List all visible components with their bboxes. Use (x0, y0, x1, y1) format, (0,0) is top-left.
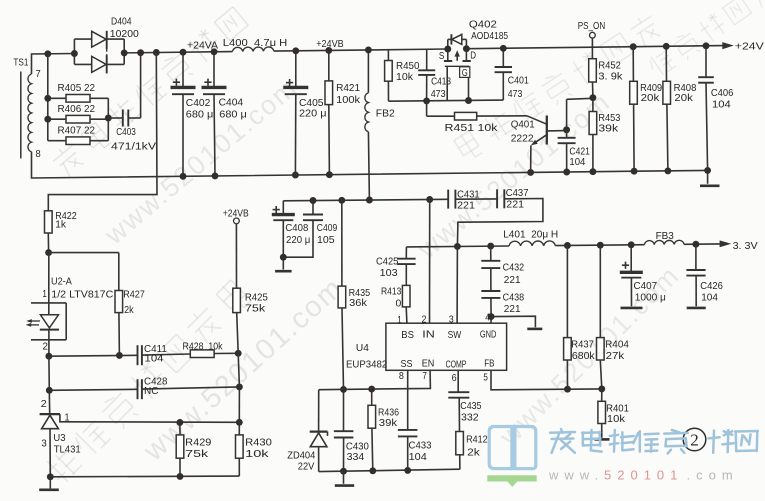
wire: divider column (238, 353, 239, 387)
svg-text:C408: C408 (285, 222, 308, 234)
svg-text:1k: 1k (55, 219, 66, 231)
junction dots row2 (46, 387, 53, 394)
svg-text:3. 9k: 3. 9k (598, 70, 623, 82)
svg-text:C438: C438 (503, 292, 525, 304)
svg-text:R430: R430 (245, 436, 272, 448)
ground (C407) (621, 307, 643, 310)
optocoupler U2-A LED (48, 253, 50, 315)
svg-text:471/1kV: 471/1kV (111, 140, 156, 152)
svg-text:104: 104 (569, 156, 585, 168)
svg-text:U2-A: U2-A (51, 276, 72, 288)
wire: opto cathode row (49, 354, 138, 357)
svg-text:2222: 2222 (511, 133, 534, 145)
ground (TL431 anode) (49, 477, 51, 489)
svg-text:221: 221 (506, 198, 524, 210)
svg-text:R407 22: R407 22 (58, 125, 96, 137)
capacitor C401 (502, 48, 504, 67)
resistor R412 (456, 432, 464, 455)
svg-text:3: 3 (449, 313, 454, 325)
wire: opto to TL431 segment (48, 356, 50, 390)
svg-text:20k: 20k (674, 92, 693, 104)
ferrite bead FB2 (367, 50, 369, 93)
wire: SW node line (406, 245, 509, 248)
resistor R427 (115, 291, 123, 313)
svg-text:473: 473 (508, 88, 523, 100)
wire: feedback bottom line (50, 475, 239, 478)
wire: EN bottom line (319, 469, 460, 471)
svg-text:104: 104 (145, 353, 164, 365)
svg-text:8: 8 (36, 148, 41, 160)
svg-text:R405 22: R405 22 (58, 82, 96, 94)
capacitor C407 (electrolytic) (630, 245, 632, 272)
svg-text:C404: C404 (219, 96, 244, 108)
svg-text:104: 104 (701, 292, 718, 304)
wire: +24V top rail (TS1 pin7 to D404 anode side) (32, 54, 75, 75)
svg-text:R451 10k: R451 10k (445, 122, 499, 134)
wire: GND pin to ground (490, 317, 492, 324)
svg-text:22V: 22V (298, 461, 315, 473)
transformer TS1 secondary winding (28, 74, 32, 152)
label +24V with arrow (722, 42, 734, 49)
svg-text:D404: D404 (111, 16, 132, 28)
wire: TL431 ref line (65, 421, 239, 424)
wire: 3.3V output line (555, 244, 644, 247)
watermark texts (decorative) (50, 5, 250, 179)
ground (C426) (687, 307, 706, 310)
svg-text:104: 104 (409, 451, 427, 463)
resistor R421 (328, 50, 330, 81)
resistor R406 (48, 118, 66, 120)
capacitor C421 (566, 130, 568, 138)
svg-text:.com: .com (687, 468, 739, 483)
ferrite bead FB3 (644, 240, 684, 244)
zener ZD404 (318, 390, 320, 432)
inductor L400 (232, 47, 273, 52)
svg-text:1: 1 (42, 288, 47, 300)
diode D404 lower (74, 63, 91, 65)
wire: divider to Q401 base (567, 98, 593, 99)
wire: D404 right vertical (123, 39, 125, 64)
page number 2 circled (683, 428, 706, 451)
svg-text:4: 4 (485, 311, 490, 323)
svg-text:2: 2 (41, 398, 47, 410)
svg-text:39k: 39k (379, 417, 398, 429)
mosfet Q402 body diode (447, 39, 449, 49)
shunt regulator U3 TL431 (40, 413, 60, 415)
svg-text:SS: SS (401, 358, 413, 370)
svg-text:C435: C435 (460, 400, 481, 412)
svg-text:1/2 LTV817C: 1/2 LTV817C (51, 289, 113, 301)
transistor Q401 (527, 116, 547, 124)
resistor R453 (592, 98, 594, 112)
svg-text:8: 8 (399, 370, 404, 382)
capacitor C408 (electrolytic) (282, 201, 284, 214)
resistor R436 (371, 389, 373, 405)
ic U4 EUP3482 box (386, 323, 507, 370)
svg-text:6: 6 (452, 372, 457, 384)
resistor R425 (233, 288, 241, 312)
svg-text:+24V: +24V (735, 40, 764, 52)
svg-text:221: 221 (457, 200, 475, 212)
svg-text:C433: C433 (409, 440, 432, 452)
svg-text:R413: R413 (381, 286, 401, 298)
svg-text:680 μ: 680 μ (219, 108, 247, 120)
junction dot C421 bus (563, 169, 570, 176)
svg-text:COMP: COMP (446, 358, 467, 370)
wire: R422 to R427 (49, 252, 119, 254)
wire: EN node line (319, 370, 431, 389)
diode D404 upper (74, 38, 91, 40)
svg-text:R412: R412 (466, 433, 488, 445)
svg-text:10200: 10200 (110, 28, 139, 40)
wire: top rail Q402 drain to +24V arrow (466, 46, 723, 49)
svg-text:473: 473 (431, 88, 446, 100)
junction dots divider (589, 94, 596, 101)
resistor R430 (238, 422, 240, 435)
resistor R404 (599, 245, 601, 337)
svg-text:10k: 10k (396, 71, 414, 83)
svg-text:R437: R437 (571, 338, 594, 350)
junction dot C401 rail (500, 45, 507, 52)
svg-text:27k: 27k (606, 350, 625, 362)
resistor R422 (45, 211, 53, 233)
svg-text:D: D (470, 50, 476, 62)
svg-text:R421: R421 (336, 82, 360, 94)
svg-text:103: 103 (380, 267, 398, 279)
wire: D404 left vertical (73, 39, 75, 64)
wire: COMP pin / C435 (457, 370, 459, 392)
junction dot R422 bottom (45, 249, 52, 256)
resistor R450 (387, 50, 389, 61)
svg-text:220 μ: 220 μ (299, 107, 327, 119)
svg-text:FB3: FB3 (656, 230, 674, 242)
svg-text:EUP3482: EUP3482 (346, 359, 387, 371)
resistor R409 (632, 47, 634, 82)
svg-text:TS1: TS1 (13, 56, 28, 68)
wire: secondary ground bus (32, 152, 708, 178)
capacitor C406 (705, 46, 707, 77)
wire: R405-407 left bus (47, 54, 49, 141)
svg-text:BS: BS (401, 329, 414, 341)
svg-text:C402: C402 (186, 97, 211, 109)
svg-text:GND: GND (480, 328, 497, 340)
svg-text:2: 2 (422, 313, 427, 325)
svg-text:5: 5 (483, 371, 488, 383)
capacitor C404 (electrolytic) (213, 52, 215, 87)
capacitor C428 (NC) (137, 379, 139, 399)
svg-text:C413: C413 (431, 75, 451, 87)
svg-text:220 μ: 220 μ (286, 234, 310, 246)
svg-text:R404: R404 (605, 338, 629, 350)
junction dots FB line (564, 386, 571, 393)
ground (R401) (595, 438, 610, 441)
svg-text:332: 332 (461, 411, 479, 423)
mosfet Q402 channel symbol (447, 49, 449, 61)
svg-text:FB: FB (484, 358, 494, 370)
junction dots output line (564, 242, 571, 249)
svg-text:20k: 20k (641, 92, 661, 104)
svg-text:10k: 10k (245, 448, 270, 460)
svg-text:SW: SW (448, 329, 462, 341)
svg-text:3. 3V: 3. 3V (733, 240, 758, 252)
junction dots bottom line (340, 468, 347, 475)
svg-text:1000 μ: 1000 μ (635, 292, 666, 304)
svg-text:36k: 36k (349, 297, 368, 309)
wire: rail to R422 (48, 53, 157, 211)
wire: D404 dashed cathode link (106, 49, 108, 55)
svg-text:221: 221 (504, 274, 521, 286)
svg-text:75k: 75k (245, 302, 266, 314)
junction dots ref line (176, 419, 183, 426)
svg-text:FB2: FB2 (376, 107, 395, 119)
capacitor C409 (312, 201, 314, 215)
capacitor C426 (695, 244, 697, 270)
svg-text:C425: C425 (376, 255, 399, 267)
capacitor C425 (405, 247, 407, 259)
junction dots row1 (45, 353, 52, 360)
junction dot TL431 anode (47, 473, 54, 480)
wire: secondary input node line (283, 199, 448, 201)
svg-text:www.: www. (548, 468, 604, 483)
resistor R429 (179, 422, 181, 435)
svg-text:C432: C432 (503, 262, 525, 274)
wire: SW pin 3 (456, 246, 458, 323)
svg-text:U4: U4 (356, 342, 369, 354)
wire: R405-407 right bus (107, 98, 109, 140)
svg-text:L400 4.7μ H: L400 4.7μ H (223, 37, 287, 49)
svg-text:R427: R427 (123, 289, 145, 301)
resistor R408 (665, 46, 667, 81)
svg-text:1: 1 (397, 314, 402, 326)
svg-text:7: 7 (36, 68, 41, 80)
wire: top rail L400 to Q402 source (274, 49, 448, 51)
svg-text:100k: 100k (336, 94, 361, 106)
svg-text:C407: C407 (634, 280, 658, 292)
logo book icon (489, 427, 512, 469)
svg-text:L401 20μ H: L401 20μ H (503, 229, 558, 241)
junction dots snubber (44, 50, 51, 57)
svg-text:7: 7 (422, 370, 427, 382)
svg-text:0: 0 (396, 297, 402, 309)
svg-text:3: 3 (41, 438, 47, 450)
svg-text:680k: 680k (572, 350, 596, 362)
junction dots input node (310, 197, 317, 204)
wire: IN pin 2 (429, 200, 431, 324)
junction dots C405 R421 FB2 (292, 47, 299, 54)
ground (C408/C409) (282, 257, 284, 269)
wire: gate node line (389, 100, 504, 101)
capacitor C431 (447, 190, 449, 209)
capacitor C405 (electrolytic) (295, 51, 297, 87)
resistor R451 (426, 101, 428, 116)
inductor L401 (509, 241, 555, 246)
ground (U4 GND) (527, 328, 542, 331)
junction dots right rail (630, 43, 637, 50)
resistor R435 (341, 200, 343, 286)
junction dot Q401 emitter at bus (527, 169, 534, 176)
wire: SS pin / C433 (407, 370, 409, 430)
resistor R452 (589, 59, 597, 82)
junction dot GND pin (488, 313, 495, 320)
svg-text:C401: C401 (508, 75, 529, 87)
svg-text:C437: C437 (506, 187, 529, 199)
svg-text:680 μ: 680 μ (186, 109, 214, 121)
svg-text:R428 10k: R428 10k (183, 341, 224, 353)
junction dots EN line (340, 386, 347, 393)
svg-text:2k: 2k (124, 304, 134, 316)
capacitor C413 (426, 49, 428, 70)
svg-text:2: 2 (43, 341, 49, 353)
resistor R405 (48, 97, 66, 99)
mosfet Q402 gate box (445, 65, 470, 67)
junction dot C403 rail (137, 49, 144, 56)
svg-text:334: 334 (347, 451, 365, 463)
logo text (site name, decorative) (550, 429, 758, 454)
capacitor C402 (electrolytic) (182, 52, 184, 87)
svg-text:Q401: Q401 (511, 119, 535, 131)
capacitor C403 (108, 117, 123, 119)
svg-text:C403: C403 (116, 126, 136, 138)
optocoupler light arrows (31, 320, 41, 322)
junction dots Q402 (444, 46, 451, 53)
svg-text:75k: 75k (185, 448, 209, 460)
svg-text:TL431: TL431 (54, 444, 81, 456)
svg-text:105: 105 (317, 234, 335, 246)
optocoupler U2-A box (31, 302, 66, 304)
svg-text:IN: IN (422, 328, 435, 340)
svg-text:Q402: Q402 (469, 18, 497, 30)
svg-text:104: 104 (712, 99, 731, 111)
svg-text:PS_ON: PS_ON (578, 20, 606, 32)
capacitor C411 (137, 345, 139, 365)
junction dots C402 C404 (180, 49, 187, 56)
svg-text:U3: U3 (53, 432, 65, 444)
capacitor C432 (490, 246, 492, 261)
wire: top rail D404 cathode to L400 (124, 52, 232, 53)
wire: C428 row (49, 389, 137, 390)
resistor R401 (601, 389, 603, 401)
wire: FB pin line (491, 370, 602, 390)
capacitor C430 (343, 389, 345, 431)
svg-text:221: 221 (504, 303, 521, 315)
svg-text:G: G (462, 67, 468, 79)
junction dots at D404 (71, 50, 78, 57)
svg-text:C409: C409 (317, 222, 338, 234)
svg-text:C406: C406 (711, 87, 734, 99)
svg-text:R450: R450 (396, 60, 420, 72)
svg-text:C426: C426 (700, 280, 723, 292)
junction dots SW line (454, 243, 461, 250)
svg-text:AOD4185: AOD4185 (471, 30, 508, 42)
ground (EN network) (343, 471, 345, 484)
svg-text:R406 22: R406 22 (58, 103, 96, 115)
label 3.3V with arrow (720, 240, 732, 247)
svg-text:2k: 2k (467, 446, 480, 458)
ground (bus right end) (707, 170, 709, 183)
resistor R428 (190, 350, 214, 358)
resistor R437 (566, 246, 568, 338)
transformer TS1 core (20, 72, 22, 159)
svg-text:S: S (439, 50, 445, 62)
svg-text:10k: 10k (607, 413, 626, 425)
svg-text:39k: 39k (598, 122, 619, 134)
capacitor C438 (481, 290, 500, 292)
resistor R413 (0 ohm) (402, 285, 410, 307)
svg-text:R429: R429 (185, 436, 211, 448)
svg-text:NC: NC (144, 385, 159, 397)
capacitor C437 (496, 189, 498, 208)
svg-text:520101: 520101 (604, 468, 683, 483)
resistor R407 (48, 140, 66, 142)
svg-text:2: 2 (690, 431, 699, 450)
svg-text:EN: EN (422, 358, 435, 370)
